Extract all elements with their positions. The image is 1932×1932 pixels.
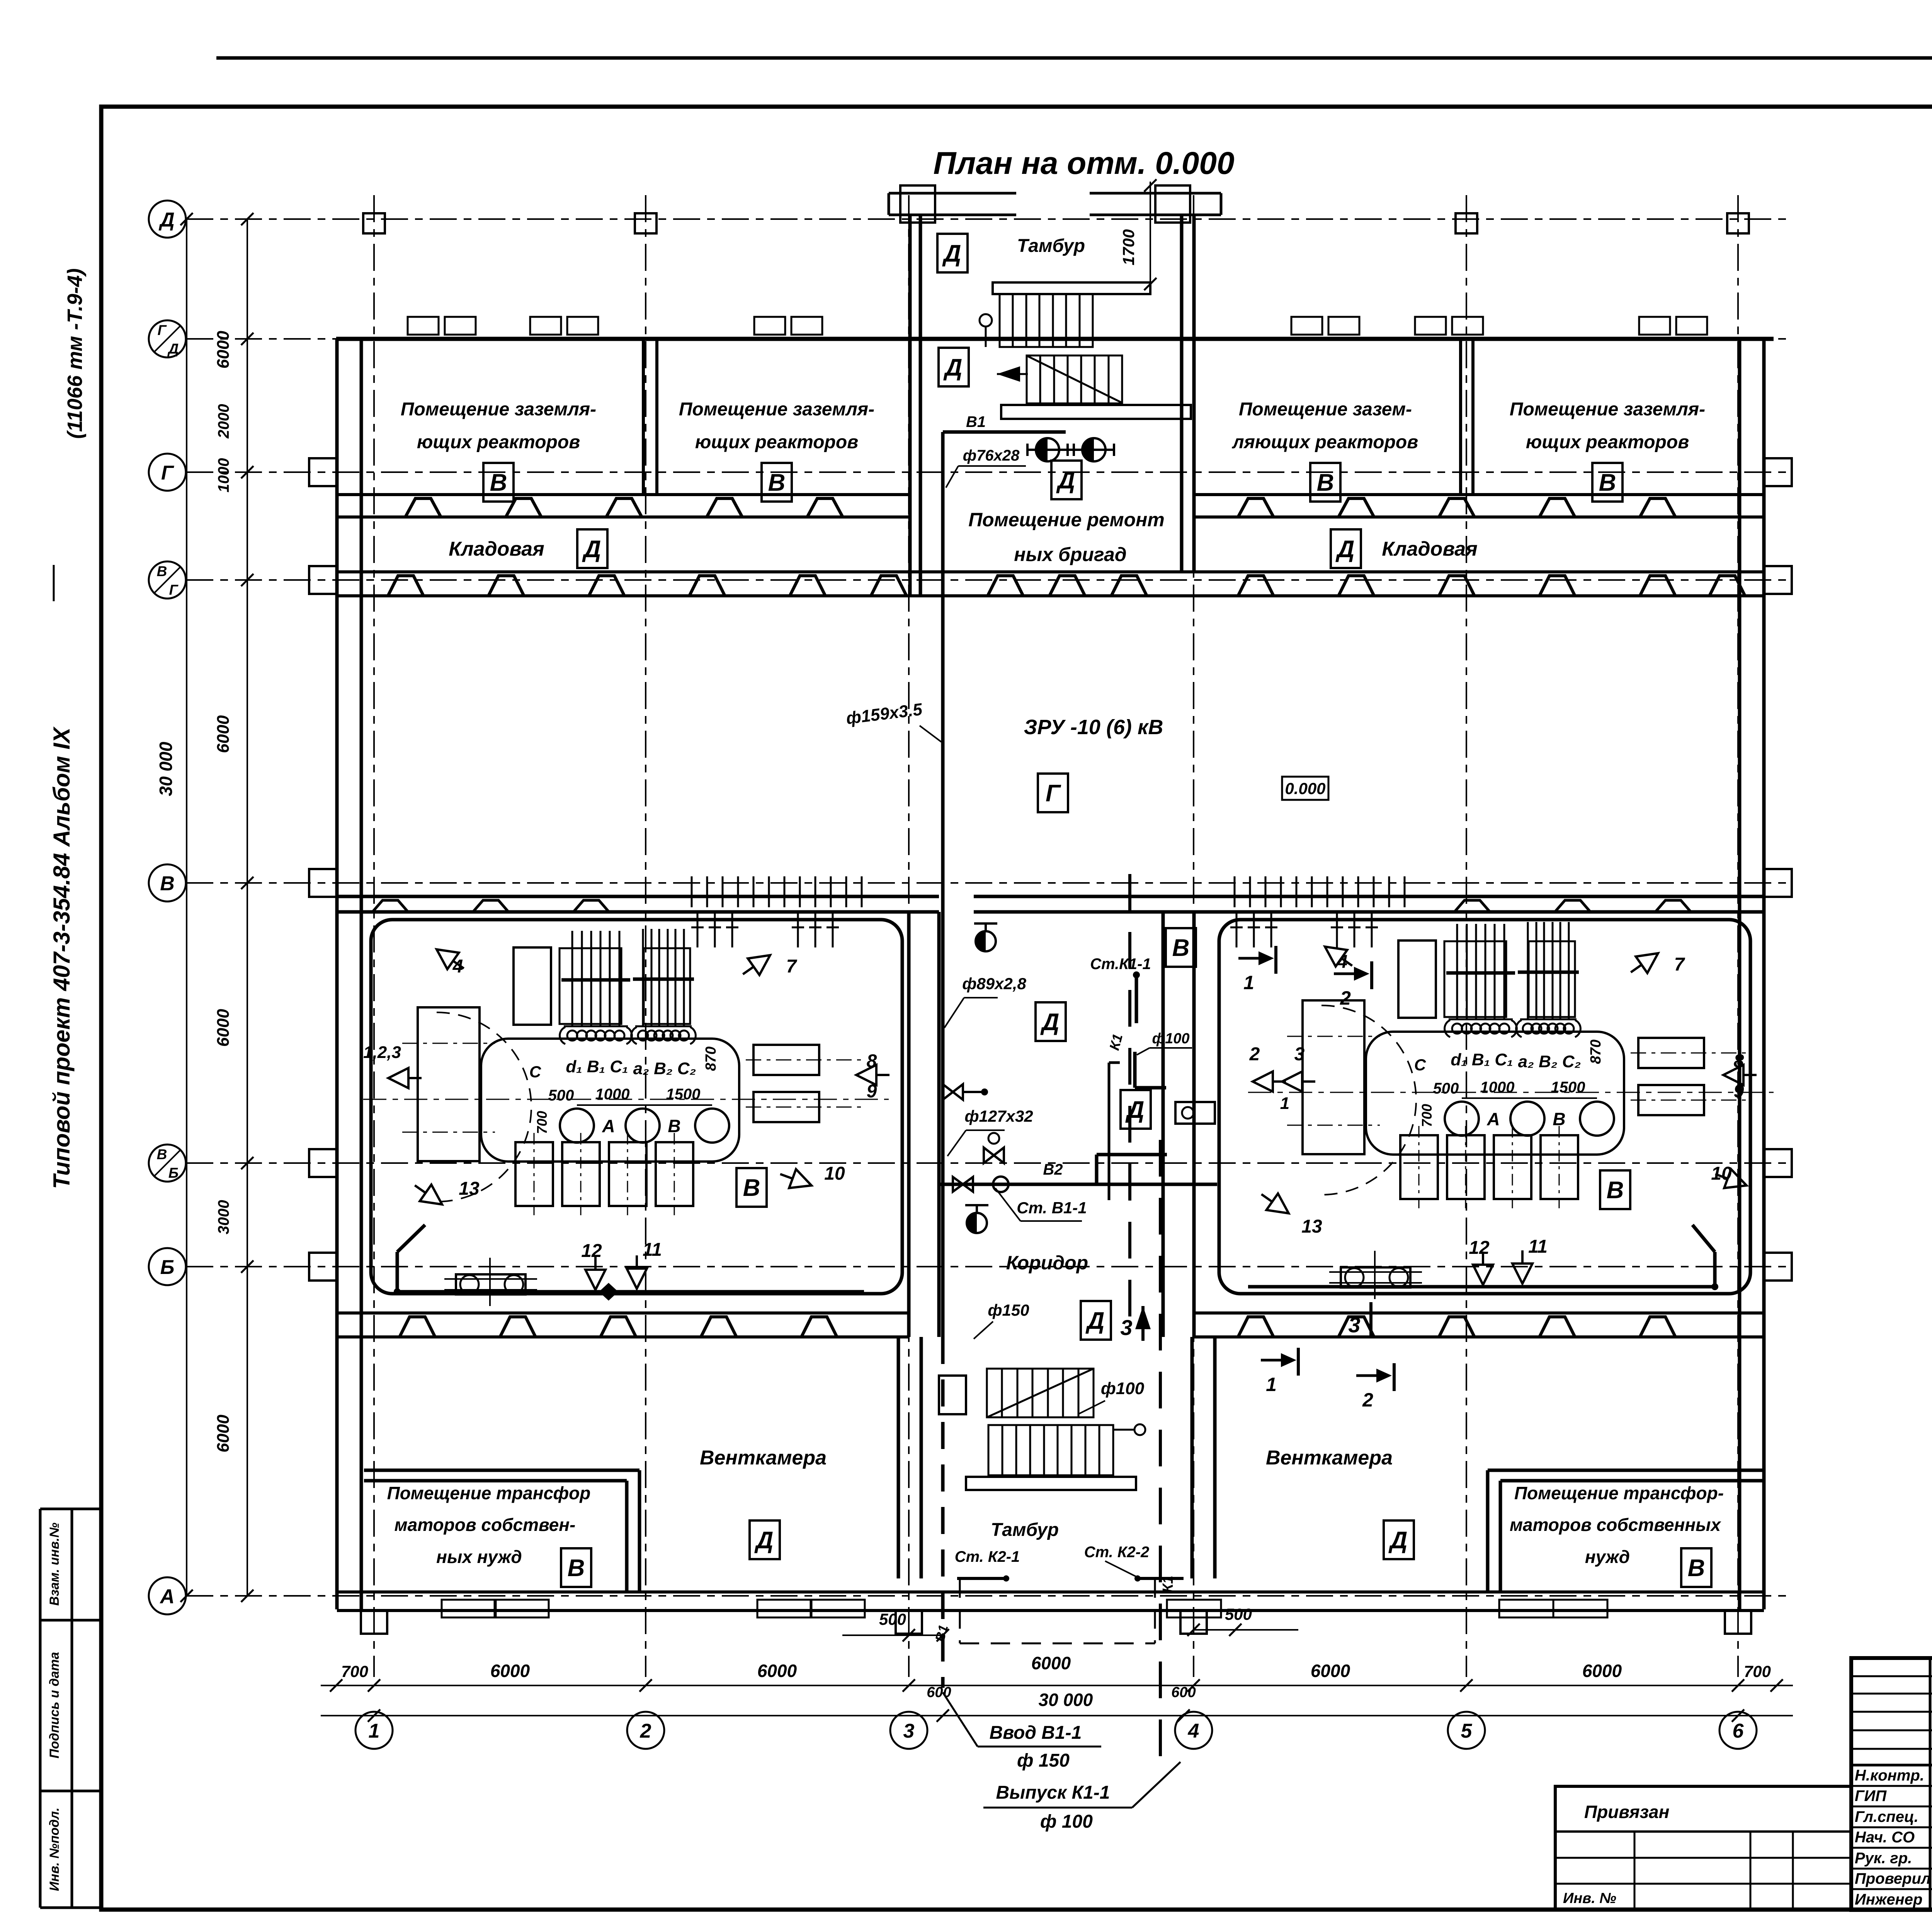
svg-text:500: 500 [1225, 1605, 1252, 1623]
radiators right [1638, 1038, 1704, 1068]
svg-text:В: В [490, 469, 507, 496]
svg-text:Инженер: Инженер [1855, 1891, 1922, 1908]
svg-text:ных нужд: ных нужд [436, 1547, 522, 1567]
svg-text:1: 1 [1280, 1094, 1289, 1113]
svg-text:Б: Б [160, 1256, 175, 1279]
svg-text:Помещение ремонт: Помещение ремонт [968, 509, 1165, 531]
transformer body [481, 1039, 739, 1162]
svg-text:1: 1 [1266, 1374, 1277, 1395]
pump dims [577, 1104, 712, 1106]
title block outer [1851, 1658, 1932, 1910]
valve on В1 riser [943, 1084, 963, 1100]
svg-text:маторов собствен-: маторов собствен- [395, 1515, 576, 1535]
svg-text:В: В [157, 1146, 167, 1162]
pipe В2 run [939, 1183, 1217, 1186]
svg-text:Рук. гр.: Рук. гр. [1855, 1850, 1912, 1867]
К1 stack stub [1135, 975, 1138, 1023]
svg-text:6000: 6000 [214, 1415, 233, 1452]
svg-text:Помещение трансфор: Помещение трансфор [387, 1483, 591, 1503]
svg-text:3: 3 [1294, 1044, 1305, 1065]
svg-text:0.000: 0.000 [1285, 779, 1325, 798]
svg-text:6000: 6000 [1582, 1661, 1622, 1681]
svg-text:500: 500 [1433, 1080, 1459, 1097]
right equipment room boundary [1219, 920, 1750, 1294]
svg-text:В: В [1688, 1555, 1705, 1582]
wall top row exterior (axis Г/Д) [336, 337, 1774, 341]
oil pump unit [1341, 1267, 1410, 1287]
svg-text:Д: Д [167, 341, 179, 357]
svg-text:7: 7 [1674, 954, 1685, 975]
svg-text:2: 2 [1249, 1044, 1260, 1065]
corridor walls between axes 3-4 (below В) [907, 912, 911, 1337]
svg-text:Помещение зазем-: Помещение зазем- [1239, 399, 1412, 420]
taps right room [1253, 1071, 1286, 1092]
tambour side walls [908, 215, 912, 421]
tambour top walls [889, 192, 1016, 195]
dim 1700 tambour [1150, 182, 1151, 286]
svg-text:1000: 1000 [1480, 1079, 1515, 1096]
grid axis lines vertical 1-6 [373, 195, 375, 1677]
svg-text:ф100: ф100 [1152, 1031, 1189, 1047]
svg-text:В: В [768, 469, 786, 496]
equipment centerline [1248, 1092, 1774, 1093]
svg-text:Н.контр.: Н.контр. [1855, 1767, 1924, 1784]
taps left room [431, 941, 469, 977]
svg-text:2000: 2000 [215, 404, 232, 439]
axis bubbles left column [149, 201, 186, 238]
svg-text:6000: 6000 [214, 1009, 233, 1047]
bottom main dimension chain [321, 1685, 1793, 1686]
bottom riser offset dims 500 [842, 1634, 943, 1636]
left exterior wall [335, 339, 339, 1609]
svg-text:Ввод В1-1: Ввод В1-1 [990, 1723, 1082, 1743]
svg-text:Выпуск К1-1: Выпуск К1-1 [996, 1782, 1110, 1803]
svg-text:В: В [1599, 469, 1616, 496]
lower stairwell [939, 1376, 966, 1414]
pipe К1 dashed risers [1159, 1140, 1162, 1777]
svg-text:4: 4 [1188, 1720, 1199, 1742]
svg-text:870: 870 [1588, 1039, 1604, 1064]
wall axis В [337, 895, 939, 898]
svg-text:Д: Д [1125, 1097, 1145, 1123]
bushing cluster 2 [642, 929, 644, 1027]
svg-text:7: 7 [786, 956, 798, 977]
svg-text:500: 500 [879, 1610, 906, 1628]
svg-text:Взам. инв.№: Взам. инв.№ [47, 1522, 62, 1605]
svg-text:Кладовая: Кладовая [1382, 538, 1477, 560]
svg-text:d₁ B₁ C₁: d₁ B₁ C₁ [1451, 1050, 1513, 1069]
svg-text:8: 8 [1734, 1051, 1744, 1071]
svg-text:ГИП: ГИП [1855, 1787, 1887, 1804]
svg-text:2: 2 [1340, 987, 1351, 1009]
columns on axis Д [363, 213, 385, 233]
svg-text:ющих реакторов: ющих реакторов [695, 432, 858, 452]
svg-text:Привязан: Привязан [1584, 1802, 1669, 1822]
svg-text:Гл.спец.: Гл.спец. [1855, 1808, 1918, 1825]
svg-text:Ст. В1-1: Ст. В1-1 [1017, 1199, 1087, 1217]
svg-text:Д: Д [1056, 467, 1075, 494]
svg-text:ф 100: ф 100 [1040, 1811, 1093, 1832]
wall bushing bolts below В wall [697, 913, 699, 947]
bold pipe along right room bottom [1248, 1285, 1715, 1289]
svg-text:600: 600 [1171, 1684, 1196, 1701]
svg-text:6000: 6000 [1031, 1653, 1071, 1673]
svg-text:Г: Г [169, 582, 179, 598]
svg-text:4: 4 [452, 956, 463, 977]
svg-text:В: В [568, 1555, 585, 1582]
svg-text:6000: 6000 [490, 1661, 530, 1681]
bushing cluster 2 [1527, 922, 1529, 1020]
svg-text:6000: 6000 [214, 331, 233, 369]
svg-text:30 000: 30 000 [1039, 1690, 1093, 1710]
svg-text:12: 12 [581, 1241, 602, 1261]
sheet outer top line [216, 56, 1932, 60]
svg-text:a₂ B₂ C₂: a₂ B₂ C₂ [1518, 1052, 1581, 1071]
svg-text:Помещение заземля-: Помещение заземля- [401, 399, 596, 420]
svg-text:Ст. К2-2: Ст. К2-2 [1084, 1544, 1150, 1561]
svg-text:6: 6 [1733, 1720, 1744, 1742]
svg-text:Инв. №подл.: Инв. №подл. [47, 1808, 62, 1891]
svg-text:ляющих реакторов: ляющих реакторов [1232, 432, 1418, 452]
equipment room В tags [736, 1168, 767, 1207]
svg-text:В: В [157, 563, 167, 579]
repair-brigades room walls [908, 421, 912, 596]
pipe B1 riser vertical [941, 432, 945, 1337]
svg-text:3000: 3000 [215, 1200, 232, 1235]
svg-text:2: 2 [1362, 1389, 1373, 1411]
svg-text:ющих реакторов: ющих реакторов [417, 432, 580, 452]
svg-text:11: 11 [1528, 1236, 1548, 1257]
svg-text:3: 3 [903, 1720, 915, 1742]
svg-text:9: 9 [867, 1081, 877, 1102]
wall axis В/Г with panel notches [337, 570, 1194, 573]
svg-text:Нач. СО: Нач. СО [1855, 1829, 1915, 1846]
svg-text:А: А [602, 1116, 615, 1136]
svg-text:Тамбур: Тамбур [1017, 236, 1085, 256]
equipment centerline [363, 1099, 889, 1100]
svg-text:Г: Г [158, 322, 167, 338]
grid axis lines horizontal А-Д [186, 218, 1793, 220]
svg-text:12: 12 [1469, 1238, 1490, 1258]
svg-text:Помещение заземля-: Помещение заземля- [679, 399, 874, 420]
partition walls in reactor room row [642, 339, 645, 495]
svg-text:маторов собственных: маторов собственных [1510, 1515, 1721, 1535]
svg-text:6000: 6000 [214, 715, 233, 753]
bushing combs on wall В [691, 876, 693, 907]
svg-text:10: 10 [1711, 1163, 1732, 1184]
svg-text:В2: В2 [1043, 1161, 1063, 1178]
svg-text:ющих реакторов: ющих реакторов [1526, 432, 1689, 452]
svg-text:Помещение заземля-: Помещение заземля- [1510, 399, 1705, 420]
svg-text:С: С [529, 1063, 541, 1081]
pumps А В С [560, 1109, 594, 1143]
pumps А В С [1445, 1102, 1479, 1136]
svg-text:6000: 6000 [757, 1661, 797, 1681]
left equipment room boundary [371, 920, 902, 1294]
svg-text:700: 700 [534, 1111, 550, 1134]
pump dims [1462, 1097, 1597, 1099]
svg-text:5: 5 [1461, 1720, 1473, 1742]
svg-text:30 000: 30 000 [156, 742, 176, 796]
dashed lower tambour outline [959, 1578, 961, 1643]
svg-text:13: 13 [459, 1179, 480, 1199]
svg-text:В: В [160, 872, 175, 895]
corridor inner wall [1108, 1063, 1111, 1200]
panel notches on wall В [372, 900, 408, 912]
cooling box [514, 947, 551, 1025]
radiators bottom [515, 1142, 553, 1206]
svg-text:ЗРУ -10 (6) кВ: ЗРУ -10 (6) кВ [1024, 716, 1163, 739]
transformer tank [1303, 1000, 1364, 1154]
privyazan table [1555, 1786, 1851, 1910]
svg-text:ф76х28: ф76х28 [963, 447, 1020, 464]
bushing cluster 1 [571, 931, 573, 1027]
svg-text:Д: Д [1388, 1527, 1408, 1554]
svg-text:Проверил: Проверил [1855, 1870, 1931, 1887]
svg-text:1000: 1000 [595, 1086, 630, 1103]
upper stairwell [993, 282, 1150, 294]
svg-text:Венткамера: Венткамера [1266, 1447, 1393, 1469]
bushing cluster 1 [1456, 924, 1458, 1020]
left dimension chain [247, 219, 248, 1596]
svg-text:700: 700 [341, 1662, 368, 1680]
svg-text:Ст.К1-1: Ст.К1-1 [1090, 956, 1151, 973]
wall axis Г with panel notches [337, 493, 910, 496]
svg-text:1: 1 [369, 1720, 380, 1742]
svg-text:Д: Д [754, 1527, 774, 1554]
svg-text:500: 500 [548, 1087, 574, 1104]
svg-text:ф150: ф150 [988, 1301, 1029, 1319]
svg-text:В: В [1317, 469, 1334, 496]
svg-text:1,2,3: 1,2,3 [363, 1043, 401, 1062]
svg-text:d₁ B₁ C₁: d₁ B₁ C₁ [566, 1057, 628, 1076]
svg-text:2: 2 [640, 1720, 651, 1742]
tap in corridor top [976, 931, 996, 951]
svg-text:13: 13 [1301, 1216, 1322, 1237]
radiators right [753, 1045, 819, 1075]
transformer own-needs room walls [364, 1469, 639, 1472]
svg-text:9: 9 [1734, 1081, 1744, 1102]
svg-text:В1: В1 [966, 413, 986, 430]
svg-text:ф127х32: ф127х32 [964, 1107, 1033, 1125]
bold pipe along left room bottom [397, 1290, 864, 1294]
axis bubbles bottom row [355, 1712, 393, 1749]
pipe B1 top run with valves [943, 430, 1066, 434]
svg-text:Кладовая: Кладовая [449, 538, 544, 560]
svg-text:ф 150: ф 150 [1017, 1750, 1070, 1771]
svg-text:Д: Д [1040, 1009, 1060, 1036]
transformer body [1366, 1032, 1624, 1155]
svg-text:Инв. №: Инв. № [1563, 1890, 1616, 1906]
svg-text:Д: Д [943, 354, 963, 381]
svg-text:А: А [159, 1585, 175, 1608]
svg-text:1: 1 [1243, 972, 1254, 993]
svg-text:700: 700 [1744, 1662, 1771, 1680]
К2 stubs in lower tambour [957, 1577, 1005, 1580]
svg-text:Типовой проект 407-3-354.84: Типовой проект 407-3-354.84 Альбом IX [49, 726, 75, 1189]
wall axis Б with panel notches [337, 1311, 909, 1315]
svg-text:1000: 1000 [215, 458, 232, 493]
section marks 1 and 2 upper (right room) [1238, 957, 1269, 960]
svg-text:6000: 6000 [1311, 1661, 1350, 1681]
svg-text:1500: 1500 [666, 1086, 701, 1103]
svg-text:a₂ B₂ C₂: a₂ B₂ C₂ [633, 1059, 696, 1078]
bushing frame boxes [560, 948, 621, 1024]
svg-text:870: 870 [703, 1046, 719, 1071]
bottom total dimension [321, 1715, 1793, 1716]
svg-text:3: 3 [1348, 1313, 1360, 1337]
svg-text:В: В [1172, 935, 1190, 961]
svg-text:нужд: нужд [1585, 1547, 1630, 1567]
radiators bottom [1400, 1135, 1438, 1199]
svg-text:Д: Д [1335, 536, 1355, 563]
svg-text:Д: Д [942, 240, 961, 267]
wall axis А with panel notches [337, 1590, 1764, 1594]
svg-text:8: 8 [867, 1051, 877, 1071]
svg-text:В: В [743, 1175, 760, 1201]
svg-text:Д: Д [582, 536, 601, 563]
svg-text:С: С [1414, 1056, 1426, 1074]
svg-text:(11066 тм -Т.9-4): (11066 тм -Т.9-4) [63, 268, 87, 439]
transformer tank [418, 1007, 480, 1161]
svg-text:ф100: ф100 [1101, 1379, 1145, 1398]
svg-text:3: 3 [1120, 1315, 1132, 1340]
svg-text:ф89х2,8: ф89х2,8 [962, 975, 1026, 993]
left margin stamp column [39, 1509, 42, 1908]
svg-text:11: 11 [643, 1240, 662, 1260]
svg-text:Д: Д [158, 209, 175, 231]
svg-text:ных бригад: ных бригад [1014, 544, 1126, 565]
svg-text:В: В [1607, 1177, 1624, 1204]
svg-text:Г: Г [161, 462, 174, 484]
svg-text:Г: Г [1046, 780, 1061, 807]
cooling box [1398, 940, 1436, 1018]
section marks 1 and 2 lower [1261, 1359, 1292, 1362]
title block left table [1929, 1658, 1932, 1910]
svg-text:Б: Б [168, 1165, 179, 1181]
svg-text:1500: 1500 [1551, 1079, 1585, 1096]
svg-text:4: 4 [1337, 952, 1348, 972]
svg-text:1700: 1700 [1119, 229, 1138, 265]
svg-text:10: 10 [824, 1163, 845, 1184]
svg-text:План на отм. 0.000: План на отм. 0.000 [933, 146, 1234, 181]
svg-text:Д: Д [1085, 1308, 1105, 1334]
lower stairwell walls [897, 1337, 900, 1578]
svg-text:Тамбур: Тамбур [991, 1520, 1059, 1540]
svg-text:Венткамера: Венткамера [700, 1447, 827, 1469]
svg-text:Коридор: Коридор [1006, 1252, 1088, 1274]
svg-text:Ст. К2-1: Ст. К2-1 [955, 1548, 1020, 1565]
bushing frame boxes [1444, 941, 1506, 1017]
svg-text:Помещение трансфор-: Помещение трансфор- [1514, 1483, 1724, 1503]
right exterior wall [1738, 339, 1742, 1609]
svg-text:Подпись и дата: Подпись и дата [47, 1652, 62, 1759]
repair brigades room label [1051, 461, 1082, 499]
svg-text:А: А [1486, 1109, 1500, 1129]
oil pump unit [456, 1274, 526, 1294]
svg-text:700: 700 [1419, 1104, 1435, 1127]
